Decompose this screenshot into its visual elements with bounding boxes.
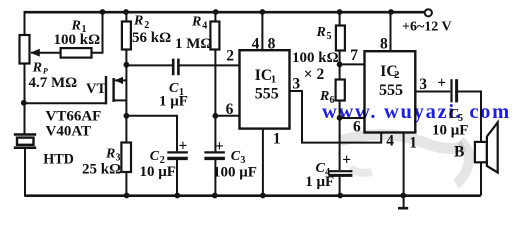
wire top supply bus (24, 11, 425, 14)
svg-text:100 kΩ: 100 kΩ (292, 50, 339, 66)
IC1 555 box (240, 50, 290, 128)
svg-text:C: C (231, 149, 241, 164)
wire R6 bottom stub (339, 101, 341, 119)
svg-text:7: 7 (350, 47, 358, 64)
svg-text:2: 2 (394, 69, 400, 81)
svg-text:+: + (342, 151, 351, 168)
wire IC2 pin 6 lead (340, 117, 365, 119)
wire IC1 pin 1 ground lead (262, 129, 264, 196)
junction R4 on top bus (213, 9, 219, 15)
svg-text:C: C (150, 149, 160, 164)
speaker B cone (487, 122, 498, 172)
wire C1 right segment to pin 2 (179, 64, 239, 66)
wire R4 rail down to C3 (214, 49, 216, 152)
piezo sounder HTD body (17, 138, 34, 145)
svg-text:10 μF: 10 μF (432, 123, 468, 139)
resistor R6 body (336, 80, 345, 101)
wire R2-R3 rail (125, 49, 127, 144)
wire IC2 pin 7 lead (340, 63, 365, 65)
svg-text:5: 5 (327, 31, 332, 42)
svg-text:1: 1 (271, 74, 277, 86)
junction C4 on ground bus (337, 193, 343, 199)
svg-text:100 kΩ: 100 kΩ (54, 32, 101, 48)
wire left rail middle (24, 63, 26, 135)
svg-text:4.7 MΩ: 4.7 MΩ (29, 75, 78, 91)
wire IC2 pin 8 supply lead (390, 12, 392, 52)
svg-text:6: 6 (226, 101, 234, 118)
wire IC1 pin 3 to IC2 pin 4 (290, 91, 382, 143)
svg-text:1: 1 (273, 130, 281, 147)
wire R1 right leg (92, 12, 103, 53)
capacitor C5 plates (450, 79, 452, 102)
svg-text:× 2: × 2 (304, 66, 325, 83)
junction R3 on ground bus (124, 193, 130, 199)
wire C2 top branch (126, 116, 177, 152)
svg-text:+6~12 V: +6~12 V (402, 19, 452, 34)
wire C1 left segment (126, 64, 172, 66)
potentiometer Rp body (20, 35, 30, 64)
svg-text:V40AT: V40AT (46, 124, 92, 140)
wire C3 bottom stub (214, 160, 216, 196)
wire IC2 pin 1 ground lead (403, 133, 405, 196)
IC2 555 box (365, 51, 416, 132)
resistor R1 body (61, 48, 92, 58)
wire R2 top stub (125, 12, 127, 22)
svg-text:VT66AF: VT66AF (46, 109, 102, 125)
svg-text:4: 4 (252, 36, 260, 53)
svg-text:+: + (215, 138, 224, 155)
svg-text:4: 4 (202, 20, 207, 31)
svg-text:100 μF: 100 μF (213, 165, 257, 181)
svg-text:8: 8 (268, 35, 276, 52)
junction ground symbol on ground bus (400, 193, 406, 199)
wire IC2 pin 3 lead (415, 91, 450, 93)
svg-text:R: R (105, 147, 115, 162)
junction C3 on ground bus (212, 193, 218, 199)
resistor R3 body (121, 143, 131, 173)
svg-text:3: 3 (419, 76, 427, 93)
svg-text:HTD: HTD (43, 152, 74, 168)
resistor R4 body (210, 22, 219, 50)
svg-text:R: R (133, 14, 143, 29)
supply terminal circle (425, 9, 432, 16)
wire C4 bottom stub (339, 177, 341, 196)
svg-text:VT: VT (86, 81, 106, 97)
svg-text:10 μF: 10 μF (140, 164, 176, 180)
svg-text:3: 3 (292, 75, 300, 92)
speaker B driver (475, 142, 487, 162)
junction R2 on top bus (123, 9, 129, 15)
svg-text:+: + (179, 137, 188, 154)
wire R1 arrow shaft (31, 52, 61, 54)
capacitor C4 plates (328, 170, 352, 172)
svg-text:IC: IC (255, 67, 272, 84)
svg-text:R: R (32, 60, 42, 75)
wire R4 top stub (214, 12, 216, 22)
wire R3 bottom stub (125, 172, 127, 196)
junction R1 branch on top bus (100, 9, 106, 15)
svg-text:+: + (437, 74, 446, 91)
wire ground stub (403, 196, 405, 209)
wire IC1 pins 4 8 supply lead (261, 12, 263, 51)
wire left rail lower (24, 148, 26, 197)
svg-text:2: 2 (226, 48, 234, 65)
junction IC2 pin 7 node (337, 62, 343, 68)
ground symbol (398, 207, 408, 210)
capacitor C2 plates (167, 151, 188, 153)
junction C1 branch node (124, 62, 130, 68)
svg-text:P: P (43, 66, 48, 75)
capacitor C1 plates (172, 59, 175, 76)
junction C2 branch node (124, 113, 130, 119)
wire left rail upper (24, 11, 26, 36)
wire R5 top stub (339, 12, 341, 26)
svg-text:8: 8 (380, 36, 388, 53)
piezo sounder HTD plates (14, 133, 36, 136)
svg-text:R: R (191, 15, 201, 30)
wire C2 bottom stub (176, 160, 178, 196)
svg-text:1 μF: 1 μF (159, 94, 188, 110)
wire gate lead (24, 102, 107, 104)
junction IC2 pin 8 on top bus (388, 9, 394, 15)
wire C5 to speaker (458, 92, 481, 196)
resistor R1 arrowhead into Rp wiper (30, 49, 40, 57)
watermark shade stroke 3 (350, 168, 372, 173)
junction IC1 pin 1 on ground bus (260, 193, 266, 199)
wire IC1 pin 6 lead (215, 115, 239, 117)
junction IC1 pins 4-8 on top bus (260, 9, 266, 15)
svg-text:25 kΩ: 25 kΩ (82, 162, 121, 178)
junction gate lead on Rp rail (21, 100, 27, 106)
transistor VT (106, 76, 126, 104)
svg-text:555: 555 (255, 86, 279, 103)
svg-text:www. wuyazi. com: www. wuyazi. com (322, 101, 511, 123)
svg-text:555: 555 (379, 82, 403, 99)
capacitor C3 plates (204, 151, 225, 153)
wire bottom ground bus (25, 194, 481, 197)
junction R5 on top bus (337, 9, 343, 15)
svg-text:1 MΩ: 1 MΩ (175, 36, 212, 52)
wire R5 bottom stub (339, 51, 341, 80)
watermark shade stroke 1 (340, 134, 464, 148)
watermark shade stroke 2 (456, 141, 469, 184)
svg-text:R: R (316, 25, 326, 40)
svg-text:1 μF: 1 μF (305, 174, 334, 190)
junction IC2 pin 6 node (337, 115, 343, 121)
resistor R5 body (336, 26, 345, 51)
junction C2 on ground bus (174, 193, 180, 199)
svg-text:56 kΩ: 56 kΩ (132, 30, 171, 46)
resistor R2 body (122, 22, 131, 50)
junction IC1 pin 6 node (213, 113, 219, 119)
wire C4 top stem (339, 118, 341, 170)
